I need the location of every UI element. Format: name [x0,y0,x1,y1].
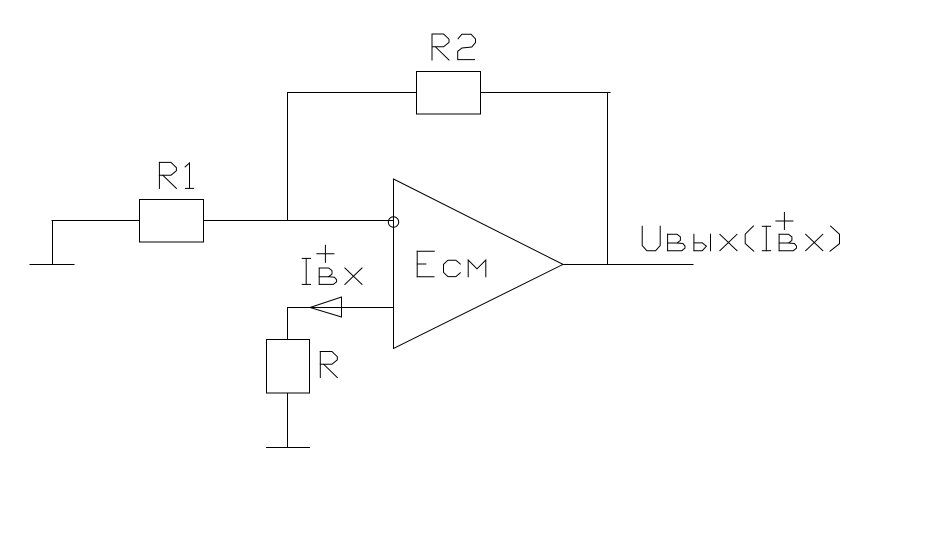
wire R1 to op-amp input [204,220,394,222]
label R2 [432,34,476,60]
wire non-inverting input [288,307,394,309]
arrow current direction [310,297,342,317]
label R [320,352,337,378]
label Ivx with plus [302,245,362,284]
wire feedback tap vertical [287,93,289,221]
node inverting input circle [388,217,398,227]
resistor R [267,340,310,394]
wire feedback right vertical [607,93,609,265]
label Uvyx(Ivx) output [642,213,839,252]
wire feedback top left [288,92,417,94]
wire output [563,264,693,266]
wire R to ground [287,393,289,448]
label R1 [159,162,193,188]
wire arrow corner down to R [287,308,289,340]
wire feedback top right [481,92,610,94]
resistor R2 [417,72,481,115]
ground bottom [267,447,310,449]
wire input left horizontal [52,220,140,222]
label Ecm inside op-amp [417,251,486,276]
wire left ground drop [52,221,54,265]
resistor R1 [140,200,204,243]
op-amp [394,179,564,349]
ground left [30,264,74,266]
